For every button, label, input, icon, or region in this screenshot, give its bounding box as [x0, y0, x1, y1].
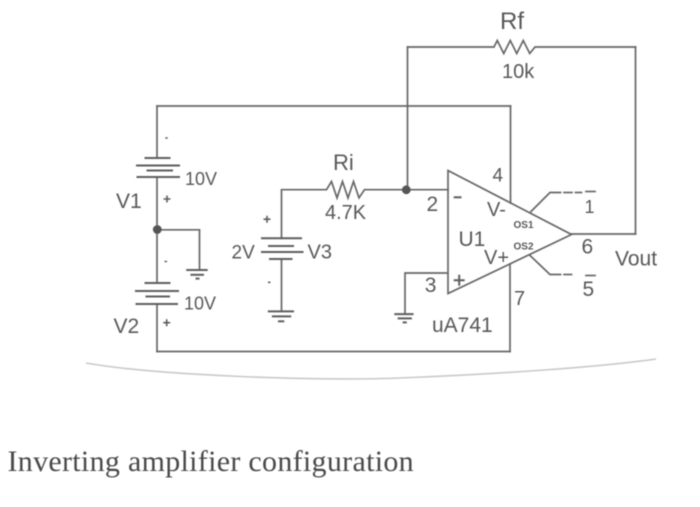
svg-text:3: 3 — [425, 274, 437, 297]
svg-text:V2: V2 — [114, 315, 140, 338]
svg-text:V1: V1 — [116, 190, 142, 213]
svg-text:10k: 10k — [502, 61, 535, 83]
svg-text:Inverting amplifier configurat: Inverting amplifier configuration — [8, 445, 414, 478]
svg-text:Ri: Ri — [333, 150, 354, 175]
svg-text:V+: V+ — [484, 247, 509, 269]
svg-text:OS1: OS1 — [514, 220, 534, 231]
svg-text:10V: 10V — [185, 169, 217, 189]
svg-text:uA741: uA741 — [432, 314, 493, 337]
svg-text:OS2: OS2 — [514, 242, 534, 253]
svg-text:2V: 2V — [232, 243, 256, 264]
svg-text:Rf: Rf — [500, 8, 524, 35]
svg-text:U1: U1 — [459, 228, 486, 251]
svg-text:6: 6 — [582, 236, 594, 259]
svg-text:10V: 10V — [184, 294, 216, 314]
svg-text:V-: V- — [487, 199, 506, 221]
svg-text:1: 1 — [585, 197, 595, 217]
svg-text:7: 7 — [514, 288, 525, 310]
svg-text:4: 4 — [493, 166, 504, 187]
svg-text:2: 2 — [427, 193, 439, 216]
svg-text:5: 5 — [583, 278, 595, 301]
svg-text:4.7K: 4.7K — [325, 202, 367, 224]
svg-text:Vout: Vout — [615, 248, 657, 271]
svg-text:V3: V3 — [308, 242, 332, 264]
